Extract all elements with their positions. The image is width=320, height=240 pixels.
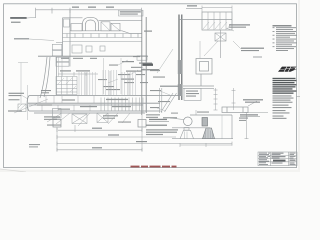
section mound right hatched [203,128,215,139]
upper assembly base line [38,55,148,57]
drum shell lines [28,96,179,113]
grate low box [222,101,268,113]
section paragraph note [146,129,178,135]
fold tick right edge [297,96,301,98]
right dim chain vertical [214,88,236,110]
lower notes mid [103,115,131,122]
front wall door [72,45,105,53]
faint wall verticals [59,57,63,77]
economizer box top right [179,12,232,30]
junction box at base [137,56,147,60]
section dim text [239,118,248,121]
border frame [4,4,297,168]
drum left head [27,96,29,111]
superheater grid [56,77,77,95]
section dim right [180,112,249,147]
tiny text left of notes [253,57,262,58]
bottom dimension chain [57,128,232,152]
bottom dim extension lines [57,115,142,151]
support feet [53,109,147,128]
upper boiler left box [52,19,70,67]
heavy center column [142,11,146,116]
notes block mid right lighter [273,95,294,119]
faint verticals center [104,58,122,94]
drum rivet ticks [38,96,94,111]
notes block mid right [273,78,297,94]
upper right heavy wall [179,15,182,101]
grate leader text [243,99,263,103]
lower leader fan [47,113,130,126]
top fittings boxes [71,22,142,34]
hatched box lower B [97,113,108,123]
EL label right of column [144,31,152,32]
company stamp [278,67,297,72]
section view wheel [170,117,192,126]
section dark hatch block [0,0,1,1]
left note text [10,17,35,23]
scattered labels above drum [103,56,159,90]
left leader note 2 [14,38,54,40]
tube bank comb [101,98,147,114]
section note underlined [146,119,169,126]
section B label underlined [240,114,260,117]
top dimension line [36,8,203,18]
extra mid-band annotations [98,65,170,109]
red annotation bottom [131,166,177,168]
downcomer verticals and diagonals [160,88,177,113]
hanging tube clusters [79,70,136,95]
drum labels [37,99,131,110]
text row below base [61,58,97,59]
control box with text [184,88,201,100]
notes block top right [273,25,298,51]
title block text [259,153,296,165]
leader note right of economizer [226,24,250,31]
left dim extension [18,63,28,104]
boxed reference note [119,10,144,16]
top dimension labels [72,5,197,8]
title block [258,152,297,166]
stack funnel left [40,57,57,98]
crossed damper box [204,30,226,58]
mid center leader text [146,112,209,119]
far left notes with leaders [8,93,24,112]
economizer dim line [202,6,232,13]
section mound left [180,128,194,139]
long diagonal leader [157,49,173,73]
flue box mid right [183,41,214,88]
superheater dim [58,72,98,76]
drum tangent extension line [27,85,29,120]
hatched box lower A [72,114,87,124]
upper right wall dark patch [178,60,183,96]
bottom-left corner shade [0,169,26,172]
left pedestal [18,104,26,112]
leader note lifting [233,41,264,51]
steam dome [70,17,122,31]
stack label [41,90,51,93]
note text bottom-left of border [29,144,40,147]
paper background [0,0,300,172]
extra mid-band leaders [108,60,170,111]
dim labels bottom [92,128,147,149]
lower notes left [44,116,61,125]
upper boiler outline left wall [63,10,142,56]
section view: top line [172,110,233,139]
roof bands [63,34,142,42]
